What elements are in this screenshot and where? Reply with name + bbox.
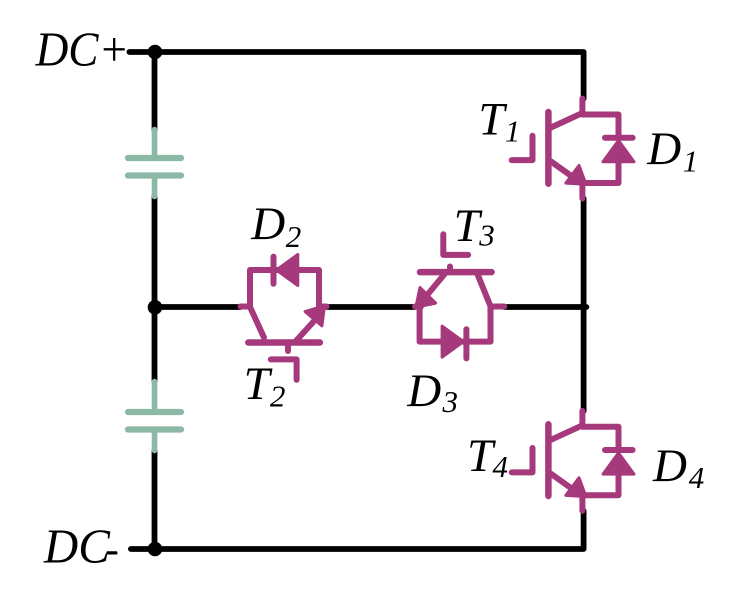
svg-text:D: D bbox=[646, 123, 681, 175]
svg-text:1: 1 bbox=[683, 144, 699, 179]
svg-text:T: T bbox=[478, 93, 507, 145]
svg-text:D: D bbox=[250, 198, 285, 250]
svg-text:DC+: DC+ bbox=[35, 21, 129, 76]
svg-text:3: 3 bbox=[478, 218, 495, 253]
svg-text:D: D bbox=[406, 365, 441, 417]
svg-text:DC: DC bbox=[43, 519, 111, 574]
svg-text:2: 2 bbox=[286, 219, 302, 254]
svg-text:1: 1 bbox=[505, 114, 521, 149]
svg-text:3: 3 bbox=[442, 384, 459, 419]
svg-text:4: 4 bbox=[493, 449, 509, 484]
svg-text:T: T bbox=[244, 358, 273, 410]
svg-text:2: 2 bbox=[270, 379, 286, 414]
svg-text:D: D bbox=[652, 440, 687, 492]
svg-text:4: 4 bbox=[689, 460, 705, 495]
